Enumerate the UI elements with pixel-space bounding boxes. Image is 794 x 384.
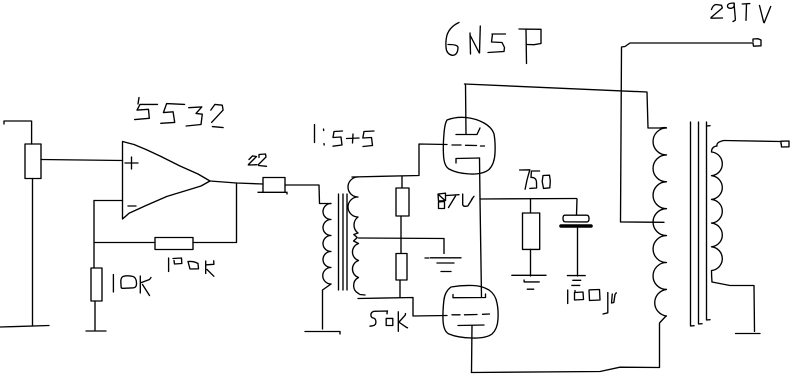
- potentiometer R1 input: [25, 144, 41, 179]
- capacitor 100u top plate: [563, 199, 589, 222]
- wire: feedback rail right and up to output: [193, 183, 237, 243]
- resistor 50k upper: [396, 176, 409, 216]
- wire: pot bottom to ground rail: [32, 179, 34, 327]
- ground below interstage primary: [305, 332, 340, 335]
- wire: feedback rail left: [94, 242, 155, 244]
- interstage transformer core: [339, 194, 348, 290]
- resistor 750: [523, 199, 540, 249]
- wire: between 50k resistors: [400, 216, 402, 253]
- terminal output: [781, 141, 789, 147]
- wire: inverting input: [94, 200, 123, 202]
- label 750: [520, 170, 530, 189]
- wire: center tap rail to ground: [359, 238, 445, 254]
- label 100k: [168, 258, 170, 272]
- wire: OPT secondary bottom to ground: [712, 282, 755, 332]
- tube V2 plate bar: [453, 294, 486, 298]
- tube V1 plate bar: [456, 128, 480, 135]
- ground below 10k: [86, 330, 106, 332]
- wire: 10k to ground: [94, 301, 96, 330]
- wire: V1 plate top rail to OPT primary top: [465, 84, 661, 128]
- wire: V2 cathode down to bottom rail: [471, 326, 474, 373]
- label 5532: [135, 98, 158, 120]
- OPT secondary winding: [712, 141, 725, 283]
- wire: secondary bottom rail to tube V2 grid: [358, 298, 447, 317]
- label 100u: [567, 290, 569, 304]
- label 297V: [711, 5, 723, 19]
- tube V1 plate lead up: [465, 84, 468, 134]
- ground below OPT secondary: [736, 333, 761, 335]
- wire: bottom rail to OPT primary bottom: [472, 316, 667, 373]
- wire: V1 cathode down to 87V node and V2 plate: [480, 158, 482, 297]
- wire: op-amp output: [210, 181, 263, 184]
- OPT core: [691, 122, 711, 326]
- label 6N5P: [446, 23, 459, 56]
- op-amp U1 triangle: [123, 142, 211, 220]
- terminal 297V: [753, 39, 761, 47]
- label 1:5+5: [314, 125, 316, 143]
- interstage transformer secondary winding: [348, 177, 365, 295]
- resistor 22: [258, 178, 287, 195]
- wire: 50k bottom to grid rail: [399, 280, 401, 298]
- op-amp + symbol: [125, 157, 138, 169]
- label 10k: [112, 275, 114, 293]
- wire: 297V supply to OPT primary tap: [621, 43, 754, 222]
- resistor 10k: [91, 268, 102, 301]
- wire: 750 to ground: [530, 249, 532, 276]
- wire: inverting node vertical: [93, 201, 95, 269]
- label 50k: [370, 311, 388, 326]
- label 22: [248, 156, 257, 165]
- resistor 50k lower: [396, 254, 407, 281]
- ground below 750 (3 bars): [512, 275, 546, 289]
- capacitor 100u bottom plate: [561, 224, 591, 228]
- wire: pot wiper to op-amp + input: [41, 160, 123, 161]
- ground below cap (3 bars): [567, 276, 585, 286]
- ground mid (3 bars): [425, 258, 461, 272]
- wire: input terminal to pot top: [4, 121, 32, 144]
- 87V rail: [480, 198, 577, 201]
- wire: bottom-left ground rail: [0, 326, 49, 328]
- op-amp - symbol: [128, 205, 136, 207]
- wire: OPT secondary top to output terminal: [724, 141, 781, 142]
- resistor 100k feedback: [155, 238, 193, 250]
- OPT primary winding: [653, 128, 666, 316]
- tube V2 envelope: [443, 285, 498, 338]
- wire: primary bottom to ground: [323, 284, 332, 329]
- tube V2 grid dashes: [452, 313, 490, 316]
- wire: 22 resistor to interstage transformer primary: [285, 185, 331, 204]
- tube V2 cathode: [458, 324, 484, 327]
- tube V1 grid dashes: [452, 145, 485, 146]
- tube V1 envelope: [443, 117, 495, 174]
- wire: secondary top to tube V1 grid: [352, 144, 447, 177]
- wire: cap to ground: [577, 228, 579, 276]
- label 87V: [438, 193, 446, 208]
- tube V1 cathode: [456, 158, 480, 163]
- interstage transformer T1 primary winding: [323, 204, 331, 285]
